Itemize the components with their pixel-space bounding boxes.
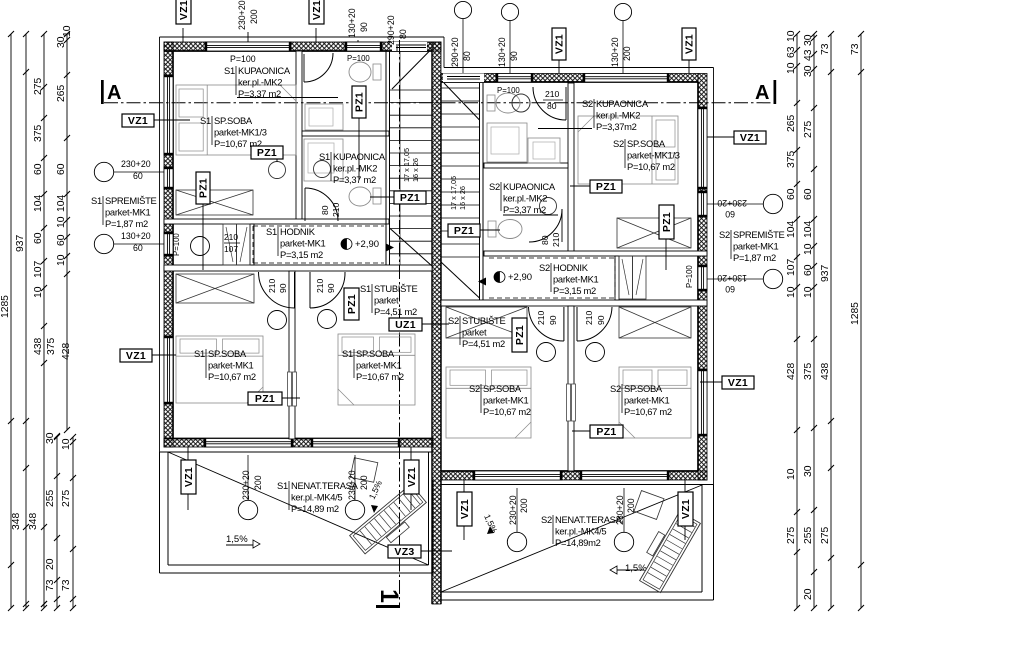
svg-text:P=100: P=100 (497, 86, 520, 95)
window S1 bottom left 200 (204, 439, 293, 448)
svg-text:20: 20 (45, 558, 56, 570)
svg-text:210: 210 (545, 89, 560, 99)
svg-text:210: 210 (331, 202, 341, 217)
svg-text:428: 428 (61, 343, 72, 360)
svg-text:S1: S1 (342, 348, 353, 359)
svg-text:P=10,67 m2: P=10,67 m2 (624, 406, 672, 417)
svg-text:60: 60 (786, 188, 797, 200)
dashed hall S2 (489, 257, 615, 259)
svg-text:200: 200 (519, 498, 529, 513)
svg-text:VZ1: VZ1 (178, 0, 190, 20)
svg-text:parket-MK1: parket-MK1 (624, 395, 670, 406)
svg-text:230+20: 230+20 (508, 495, 518, 525)
svg-text:90: 90 (548, 315, 558, 325)
svg-text:parket-MK1: parket-MK1 (105, 207, 151, 218)
svg-text:80: 80 (547, 101, 557, 111)
svg-text:PZ1: PZ1 (596, 181, 616, 193)
pz1 box S2 stair (448, 224, 480, 237)
svg-text:SPREMIŠTE: SPREMIŠTE (733, 229, 785, 240)
wall S1 bottom (164, 439, 433, 448)
wardrobe S2 bottom-right (619, 307, 691, 338)
shower S1 bath2 (304, 139, 343, 181)
svg-text:P=100: P=100 (172, 233, 181, 256)
svg-text:10: 10 (62, 25, 73, 37)
svg-text:VZ1: VZ1 (683, 34, 695, 54)
svg-text:107: 107 (33, 261, 44, 278)
window S1 left small A (164, 167, 173, 189)
svg-text:parket-MK1: parket-MK1 (483, 395, 529, 406)
stair S2 top diagonal (444, 83, 480, 120)
toilet S2 bath2 (498, 220, 522, 239)
sink S1 bath2 (314, 161, 331, 178)
terrace S2 circle left (507, 532, 526, 551)
vz1 rot top S1 a (176, 0, 191, 24)
pz1 box S1 bottom (248, 392, 282, 405)
pz1 rot S2 wardrobe (659, 205, 674, 239)
svg-text:200: 200 (359, 475, 369, 490)
washer S2 wc (528, 138, 560, 163)
dim chain left 3 (43, 34, 45, 608)
entry door S2 top (443, 74, 484, 83)
wall S1 bath strip left (296, 51, 302, 224)
right window label A (763, 194, 782, 213)
svg-text:S2: S2 (541, 514, 552, 525)
svg-text:30: 30 (56, 36, 67, 48)
pz1 box S2 bottom (590, 425, 623, 438)
wall S2 between bedrooms (568, 306, 574, 471)
svg-text:255: 255 (803, 527, 814, 544)
wall S1 wc bottom (302, 131, 389, 136)
svg-text:PZ1: PZ1 (353, 92, 365, 112)
spremiste door S1 (223, 224, 237, 265)
svg-text:S2: S2 (613, 138, 624, 149)
svg-text:1285: 1285 (0, 295, 11, 318)
wall S1 bath2 bottom (164, 219, 389, 224)
dim chain left 5 (56, 437, 58, 608)
svg-text:parket: parket (374, 295, 399, 306)
svg-text:+2,90: +2,90 (355, 239, 379, 250)
svg-text:10: 10 (56, 216, 67, 228)
section line A-A (104, 102, 773, 104)
svg-text:KUPAONICA: KUPAONICA (238, 65, 291, 76)
svg-text:10: 10 (803, 286, 814, 298)
dim chain left 1 (10, 34, 12, 608)
stair S1 top diagonal (392, 51, 430, 90)
toilet S1 bath2 (349, 187, 371, 206)
terrace S1 outline (159, 452, 161, 573)
svg-text:230+20: 230+20 (121, 159, 151, 169)
svg-text:375: 375 (46, 338, 57, 355)
svg-text:275: 275 (820, 527, 831, 544)
svg-text:1: 1 (375, 589, 403, 603)
svg-text:375: 375 (786, 151, 797, 168)
outer face line above S1 (160, 36, 445, 38)
uz1 box S1 (389, 318, 422, 331)
top circle S2 w200 (614, 3, 631, 20)
dim chain left 6 (72, 437, 74, 608)
window S2 top 90 (496, 74, 533, 83)
svg-text:104: 104 (56, 195, 67, 212)
terrace S2 circle right (614, 532, 633, 551)
svg-text:210: 210 (224, 232, 238, 242)
svg-text:275: 275 (61, 490, 72, 507)
svg-text:90: 90 (278, 283, 288, 293)
pz1 box S1 bedroom top (251, 146, 283, 159)
svg-text:KUPAONICA: KUPAONICA (596, 98, 649, 109)
svg-text:80: 80 (320, 205, 330, 215)
level mark S2 +2.90 (494, 272, 505, 283)
svg-text:S2: S2 (719, 229, 730, 240)
svg-text:104: 104 (33, 195, 44, 212)
door arc S2 bedroomL (563, 307, 565, 341)
svg-text:SPREMIŠTE: SPREMIŠTE (105, 195, 157, 206)
wall S2 bottom (441, 471, 707, 480)
bed S1 top bedroom (176, 85, 296, 155)
svg-text:60: 60 (33, 232, 44, 244)
svg-text:130+20: 130+20 (497, 37, 507, 67)
svg-text:130+20: 130+20 (610, 37, 620, 67)
svg-text:255: 255 (45, 490, 56, 507)
wardrobe S1 top bedroom (176, 190, 253, 215)
svg-text:A: A (107, 82, 121, 104)
svg-text:1285: 1285 (850, 302, 861, 325)
svg-text:S1: S1 (224, 65, 235, 76)
svg-text:90: 90 (509, 51, 519, 61)
window S1 top 200 (205, 42, 291, 51)
vz1 box left margin 2 (120, 349, 152, 362)
svg-text:937: 937 (15, 235, 26, 252)
terrace S1 slope diagonal (168, 452, 429, 565)
svg-text:VZ1: VZ1 (126, 350, 146, 362)
wall S2 wc bottom (484, 163, 568, 168)
terrace S1 circle right (345, 500, 364, 519)
svg-text:ker.pl.-MK2: ker.pl.-MK2 (333, 163, 377, 174)
svg-text:VZ1: VZ1 (740, 132, 760, 144)
svg-text:130+20: 130+20 (717, 273, 747, 283)
left window label B (94, 234, 113, 253)
svg-text:S2: S2 (469, 383, 480, 394)
svg-text:SP.SOBA: SP.SOBA (624, 383, 663, 394)
svg-text:P=4,51 m2: P=4,51 m2 (374, 306, 417, 317)
svg-text:30: 30 (803, 465, 814, 477)
svg-text:428: 428 (786, 363, 797, 380)
svg-text:PZ1: PZ1 (400, 192, 420, 204)
svg-text:60: 60 (725, 209, 735, 219)
vz1 rot top S1 b (309, 0, 324, 24)
svg-text:parket-MK1: parket-MK1 (208, 360, 254, 371)
svg-text:90: 90 (596, 315, 606, 325)
svg-text:200: 200 (249, 9, 259, 24)
svg-text:P=3,37 m2: P=3,37 m2 (333, 174, 376, 185)
svg-text:P=1,87 m2: P=1,87 m2 (733, 252, 776, 263)
window S2 right bedroom (698, 369, 707, 436)
svg-text:NENAT.TERASA: NENAT.TERASA (555, 514, 623, 525)
bed S1 bottom-left bedroom (176, 336, 263, 403)
terrace S1 circle left (238, 500, 257, 519)
svg-text:VZ1: VZ1 (311, 0, 323, 20)
svg-text:20: 20 (803, 588, 814, 600)
svg-text:PZ1: PZ1 (346, 294, 358, 314)
wall inner face lines (164, 50, 432, 52)
svg-text:SP.SOBA: SP.SOBA (356, 348, 395, 359)
svg-text:P=100: P=100 (230, 54, 256, 64)
svg-text:210: 210 (584, 310, 594, 325)
shower S1 wc (305, 104, 343, 130)
wall S1 between bedrooms (289, 271, 295, 439)
stair S1 direction arrow (386, 244, 394, 252)
svg-text:130+20: 130+20 (347, 8, 357, 38)
svg-text:200: 200 (253, 475, 263, 490)
window S2 top 200 (583, 74, 669, 83)
svg-text:73: 73 (820, 43, 831, 55)
svg-text:80: 80 (540, 235, 550, 245)
wardrobe S2 top bedroom (617, 218, 691, 248)
svg-text:UZ1: UZ1 (395, 319, 416, 331)
bed S2 bottom-right bedroom (619, 367, 691, 438)
window S2 right small A (698, 191, 707, 217)
terrace S2 slope diagonal (441, 485, 702, 592)
svg-text:60: 60 (803, 188, 814, 200)
top circle S2 door (454, 1, 471, 18)
svg-text:10: 10 (786, 62, 797, 74)
svg-text:107: 107 (224, 244, 238, 254)
svg-text:ker.pl.-MK2: ker.pl.-MK2 (596, 110, 640, 121)
vz1 rot terrace S1 right (404, 460, 419, 494)
svg-text:10: 10 (33, 286, 44, 298)
sink S2 wc (512, 94, 530, 112)
svg-text:parket-MK1: parket-MK1 (356, 360, 402, 371)
svg-text:80: 80 (398, 29, 408, 39)
svg-text:PZ1: PZ1 (454, 225, 474, 237)
svg-text:PZ1: PZ1 (255, 393, 275, 405)
window S2 bottom left 200 (473, 471, 562, 480)
svg-text:60: 60 (133, 171, 143, 181)
door mark circle S2 hallL (537, 343, 556, 362)
svg-text:10: 10 (56, 254, 67, 266)
door mark circle S2 hallR (586, 343, 605, 362)
svg-text:1,5%: 1,5% (226, 534, 248, 545)
svg-text:73: 73 (850, 43, 861, 55)
svg-text:30: 30 (803, 34, 814, 46)
dim chain left 4 (66, 34, 68, 430)
wall S1 spremiste right (250, 224, 254, 265)
svg-text:VZ3: VZ3 (394, 546, 414, 558)
svg-text:210: 210 (315, 278, 325, 293)
svg-text:P=10,67 m2: P=10,67 m2 (627, 161, 675, 172)
svg-text:S2: S2 (582, 98, 593, 109)
svg-text:P=10,67 m2: P=10,67 m2 (483, 406, 531, 417)
svg-text:265: 265 (786, 115, 797, 132)
svg-text:parket-MK1: parket-MK1 (553, 274, 599, 285)
svg-text:438: 438 (820, 363, 831, 380)
door arc S1 wc (303, 54, 305, 82)
svg-text:PZ1: PZ1 (596, 426, 616, 438)
outer face line above S2 (443, 37, 445, 68)
wardrobe S2 stair landing X (446, 307, 527, 338)
svg-text:73: 73 (61, 579, 72, 591)
svg-text:275: 275 (803, 121, 814, 138)
section mark A right (774, 80, 777, 104)
svg-text:S1: S1 (319, 151, 330, 162)
pz1 rot S1 stubiste (344, 288, 359, 320)
svg-text:SP.SOBA: SP.SOBA (208, 348, 247, 359)
door mark circle S1 hallR (318, 310, 337, 329)
window S2 bottom right 200 (580, 471, 669, 480)
vz1 box left margin 1 (122, 114, 154, 127)
svg-text:P=10,67 m2: P=10,67 m2 (208, 371, 256, 382)
svg-text:PZ1: PZ1 (661, 212, 673, 232)
svg-text:parket: parket (462, 327, 487, 338)
door arc S2 wc (565, 87, 567, 120)
svg-text:230+20: 230+20 (347, 470, 357, 500)
top circle S2 w90 (501, 3, 518, 20)
door mark circle S1 hallL (268, 311, 287, 330)
dim chain left 2 (25, 34, 27, 608)
window S1 top 90 (345, 42, 382, 51)
svg-text:80: 80 (462, 51, 472, 61)
svg-text:P=4,51 m2: P=4,51 m2 (462, 338, 505, 349)
vz1 rot terrace S1 left (181, 460, 196, 494)
svg-text:73: 73 (45, 579, 56, 591)
svg-text:60: 60 (725, 284, 735, 294)
svg-text:10: 10 (61, 438, 72, 450)
sink circle S1 near wall (269, 162, 286, 179)
toilet S2 wc (496, 93, 520, 113)
terrace S1 stair object (350, 484, 432, 560)
pz1 box S1 stair (394, 191, 426, 204)
dim chain right 1 (796, 34, 798, 608)
svg-text:SP.SOBA: SP.SOBA (483, 383, 522, 394)
svg-text:P=3,37m2: P=3,37m2 (596, 121, 637, 132)
svg-text:S1: S1 (194, 348, 205, 359)
svg-text:P=3,15 m2: P=3,15 m2 (280, 249, 323, 260)
left window label A (94, 162, 113, 181)
window S1 left small B (164, 232, 173, 256)
shower S2 wc (487, 123, 527, 162)
toilet S1 wc (349, 62, 371, 82)
pz1 rot S1 left (196, 172, 210, 204)
pz1 rot S2 stubiste (512, 318, 527, 352)
wall S2 bath2 bottom (484, 251, 707, 256)
svg-text:PZ1: PZ1 (257, 147, 277, 159)
svg-text:P=100: P=100 (347, 54, 370, 63)
svg-text:P=10,67 m2: P=10,67 m2 (356, 371, 404, 382)
terrace S2 outline (713, 485, 715, 600)
window S1 left tall (164, 75, 173, 155)
wall S2 right (698, 74, 707, 481)
window S1 left bedroom (164, 336, 173, 404)
vz1 rot terrace S2 left (457, 492, 472, 526)
svg-text:60: 60 (133, 243, 143, 253)
svg-text:VZ1: VZ1 (128, 115, 148, 127)
stair S1 flight (390, 89, 433, 91)
svg-text:30: 30 (803, 65, 814, 77)
svg-text:17 x 17,05: 17 x 17,05 (449, 176, 458, 210)
vz1 box right margin 2 (722, 376, 754, 389)
wall S2 bath strip right (568, 83, 574, 256)
terrace S2 stair object (633, 507, 701, 592)
svg-text:STUBIŠTE: STUBIŠTE (462, 315, 505, 326)
dim chain right 3 (830, 34, 832, 608)
stair S2 direction arrow (478, 278, 486, 286)
svg-text:VZ1: VZ1 (553, 34, 565, 54)
svg-text:90: 90 (359, 22, 369, 32)
svg-text:SP.SOBA: SP.SOBA (214, 115, 253, 126)
door arc S2 bath2 (561, 209, 563, 242)
svg-text:VZ1: VZ1 (728, 377, 748, 389)
svg-text:348: 348 (28, 513, 39, 530)
wall S1 hall bottom (164, 265, 432, 271)
svg-text:230+20: 230+20 (237, 0, 247, 30)
svg-text:S1: S1 (277, 480, 288, 491)
section line 1-1 (399, 40, 401, 607)
pz1 rot S1 wc (352, 86, 366, 118)
svg-text:A: A (755, 82, 769, 104)
stair S1 bottom diagonal (390, 228, 433, 266)
svg-text:348: 348 (11, 513, 22, 530)
window S2 right small B (698, 265, 707, 291)
svg-text:60: 60 (56, 234, 67, 246)
wall middle top cap (427, 42, 441, 51)
svg-text:275: 275 (33, 78, 44, 95)
level mark S1 +2.90 (341, 239, 352, 250)
svg-text:375: 375 (803, 363, 814, 380)
svg-text:10: 10 (786, 30, 797, 42)
window S1 bottom right 200 (311, 439, 400, 448)
svg-text:290+20: 290+20 (386, 15, 396, 45)
svg-text:937: 937 (820, 265, 831, 282)
dim chain right 4 (860, 34, 862, 608)
vz1 box right margin 1 (734, 131, 766, 144)
svg-text:ker.pl.-MK2: ker.pl.-MK2 (503, 193, 547, 204)
stair S2 flight (441, 87, 480, 89)
svg-text:ker.pl.-MK2: ker.pl.-MK2 (238, 77, 282, 88)
svg-text:S2: S2 (489, 181, 500, 192)
svg-text:104: 104 (803, 221, 814, 238)
wall S1 top (164, 42, 433, 51)
wall S2 spremiste left (615, 256, 619, 300)
svg-text:60: 60 (803, 264, 814, 276)
svg-text:P=3,37 m2: P=3,37 m2 (503, 204, 546, 215)
door arc S1 bath2 (304, 188, 306, 221)
vz1 rot top S2 b (682, 28, 696, 60)
window S2 right tall (698, 107, 707, 189)
svg-text:HODNIK: HODNIK (280, 226, 316, 237)
door arc S1 bedroomL (294, 272, 296, 308)
svg-text:ker.pl.-MK4/5: ker.pl.-MK4/5 (291, 492, 342, 503)
svg-text:265: 265 (56, 85, 67, 102)
svg-text:375: 375 (33, 125, 44, 142)
door mark circle S1 spremiste (191, 237, 210, 256)
svg-text:S2: S2 (448, 315, 459, 326)
bed S2 bottom-left bedroom (446, 367, 531, 438)
vz1 rot terrace S2 right (678, 492, 693, 526)
svg-text:107: 107 (786, 259, 797, 276)
svg-text:438: 438 (33, 338, 44, 355)
svg-text:parket-MK1/3: parket-MK1/3 (627, 150, 680, 161)
svg-text:VZ1: VZ1 (406, 467, 418, 487)
svg-text:S1: S1 (91, 195, 102, 206)
svg-text:60: 60 (56, 163, 67, 175)
svg-text:SP.SOBA: SP.SOBA (627, 138, 666, 149)
svg-text:10: 10 (803, 243, 814, 255)
svg-text:210: 210 (267, 278, 277, 293)
svg-text:210: 210 (551, 232, 561, 247)
bed S2 top bedroom (578, 116, 678, 184)
svg-text:104: 104 (786, 221, 797, 238)
wall S1 left (164, 42, 173, 447)
vz3 box (388, 545, 421, 558)
